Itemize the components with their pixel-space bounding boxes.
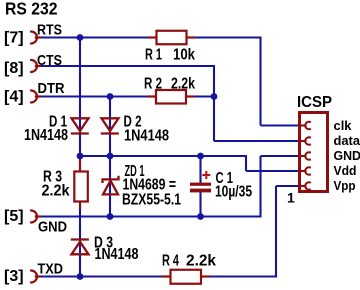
- ICSP pin Vpp socket: [300, 182, 311, 189]
- diode D1: [71, 118, 89, 133]
- svg-text:10µ/35: 10µ/35: [215, 183, 252, 200]
- C1 plus sign: [202, 171, 210, 179]
- svg-text:R 4: R 4: [162, 252, 179, 269]
- wire TXD horizontal: [39, 275, 163, 277]
- node RTS junction: [77, 34, 84, 41]
- wire clk lead: [261, 124, 300, 126]
- ICSP pin clk socket: [300, 122, 311, 129]
- wire ZD1 top: [109, 156, 111, 217]
- svg-text:Vdd: Vdd: [334, 163, 357, 178]
- diode D3: [71, 240, 89, 255]
- wire Vdd corner vertical: [245, 156, 247, 171]
- wire clk vertical: [259, 37, 261, 126]
- svg-text:DTR: DTR: [38, 80, 65, 97]
- svg-text:10k: 10k: [173, 47, 195, 64]
- svg-text:2.2k: 2.2k: [42, 183, 70, 200]
- svg-text:1N4148: 1N4148: [95, 246, 139, 263]
- svg-text:[4]: [4]: [4, 88, 24, 105]
- node diode row D1: [77, 153, 84, 160]
- ICSP connector box U1: [300, 113, 328, 192]
- svg-text:2.2k: 2.2k: [186, 252, 216, 269]
- capacitor C1: [190, 183, 211, 193]
- connector pin [8]: [31, 60, 41, 72]
- connector pin [5]: [31, 211, 41, 223]
- node TXD D3: [77, 273, 84, 280]
- wire RTS horizontal: [39, 36, 149, 38]
- svg-text:TXD: TXD: [38, 261, 64, 278]
- wire Vdd lead: [246, 170, 299, 172]
- wire R3 bottom to D3: [79, 208, 81, 277]
- wire R2 right to junction: [194, 95, 215, 97]
- ICSP pin GND socket: [300, 152, 311, 159]
- node GND row ZD1: [107, 213, 114, 220]
- wire C1 top: [199, 156, 201, 183]
- ICSP pin Vdd socket: [300, 167, 311, 174]
- svg-text:R 1: R 1: [145, 47, 162, 64]
- wire DTR horizontal: [39, 95, 148, 97]
- wire CTS-data vertical: [213, 66, 215, 141]
- connector pin [4]: [31, 91, 41, 103]
- svg-text:BZX55-5.1: BZX55-5.1: [122, 192, 181, 209]
- node diode row C1: [197, 153, 204, 160]
- wire CTS horizontal: [39, 65, 215, 67]
- resistor R4: [162, 270, 210, 284]
- svg-text:GND: GND: [334, 148, 360, 163]
- svg-text:RTS: RTS: [37, 21, 62, 38]
- resistor R2: [148, 90, 195, 104]
- wire GND lead: [261, 155, 300, 157]
- svg-text:RS 232: RS 232: [5, 0, 58, 19]
- svg-text:[8]: [8]: [4, 60, 24, 77]
- connector pin [7]: [31, 32, 41, 44]
- resistor R1: [148, 31, 195, 45]
- wire C1 bottom: [199, 192, 201, 217]
- zener diode ZD1: [103, 176, 119, 195]
- wire diode row (Vdd net): [80, 155, 247, 157]
- node DTR junction: [107, 93, 114, 100]
- svg-text:R 2: R 2: [144, 75, 162, 92]
- node CTS-R2-data junction: [211, 93, 218, 100]
- svg-text:2.2k: 2.2k: [171, 75, 195, 92]
- svg-text:GND: GND: [38, 218, 67, 235]
- node diode row D2: [107, 153, 114, 160]
- svg-text:1N4148: 1N4148: [124, 128, 169, 145]
- resistor R3: [74, 159, 88, 209]
- svg-text:[5]: [5]: [4, 208, 24, 225]
- svg-text:ICSP: ICSP: [297, 94, 332, 111]
- diode D2: [101, 118, 119, 133]
- wire RTS down to D1: [79, 38, 81, 157]
- wire Vpp vertical: [275, 186, 277, 278]
- svg-text:clk: clk: [334, 118, 353, 133]
- svg-text:[3]: [3]: [4, 268, 24, 285]
- wire data lead: [214, 140, 299, 142]
- svg-text:1: 1: [287, 190, 295, 206]
- wire Vpp lead: [276, 185, 299, 187]
- connector pin [3]: [31, 271, 41, 283]
- svg-text:CTS: CTS: [37, 52, 62, 69]
- svg-text:1N4148: 1N4148: [24, 127, 68, 144]
- wire DTR down to D2: [109, 97, 111, 157]
- node GND row C1: [197, 213, 204, 220]
- svg-text:data: data: [334, 133, 360, 148]
- wire GND row: [39, 215, 262, 217]
- wire R1 right to clk corner: [195, 36, 262, 38]
- ICSP pin data socket: [300, 137, 311, 144]
- wire R4 right to Vpp corner: [210, 275, 278, 277]
- svg-text:[7]: [7]: [4, 29, 24, 46]
- wire GND vertical: [259, 156, 261, 217]
- svg-text:Vpp: Vpp: [334, 178, 356, 193]
